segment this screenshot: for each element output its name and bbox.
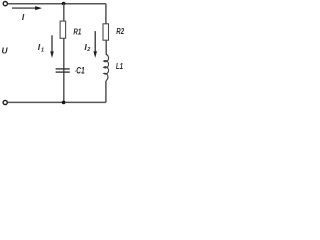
terminal bottom-left <box>3 100 7 104</box>
svg-text:1: 1 <box>41 48 44 54</box>
wire right vertical lower <box>105 81 107 103</box>
svg-text:C1: C1 <box>76 66 85 76</box>
wire right vertical middle <box>105 40 107 54</box>
svg-text:R2: R2 <box>116 26 124 36</box>
node junction top <box>62 2 66 6</box>
wire right vertical upper <box>105 4 107 24</box>
arrow I1 <box>50 35 54 58</box>
terminal top-left <box>3 2 7 6</box>
wire middle vertical lower <box>63 38 65 102</box>
arrow I2 <box>93 31 97 58</box>
svg-text:R1: R1 <box>73 27 81 37</box>
node junction bottom <box>62 101 66 105</box>
arrow I <box>12 6 42 10</box>
svg-text:I: I <box>22 12 25 22</box>
capacitor C1 <box>56 69 70 72</box>
resistor R1 <box>60 21 66 38</box>
svg-text:U: U <box>2 46 9 56</box>
stray mark near C1 <box>75 71 76 72</box>
label I2 <box>84 42 90 53</box>
wire top horizontal <box>8 3 106 5</box>
label I1 <box>38 42 44 54</box>
resistor R2 <box>103 24 109 40</box>
svg-text:L1: L1 <box>116 61 123 71</box>
svg-text:2: 2 <box>86 47 90 53</box>
wire bottom horizontal <box>8 101 106 103</box>
wire middle vertical upper <box>63 4 65 22</box>
inductor L1 <box>104 54 109 80</box>
